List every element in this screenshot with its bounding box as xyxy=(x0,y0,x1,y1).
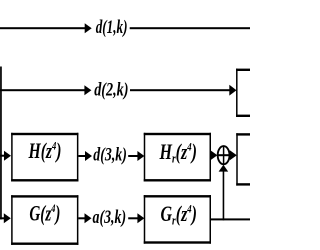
box A (top right, cropped at edge) xyxy=(236,69,250,117)
box B (middle right, cropped at edge) xyxy=(236,133,250,185)
wire d(1,k) right segment xyxy=(130,27,250,29)
svg-text:H(z4): H(z4) xyxy=(28,138,62,163)
wire G output with arrowhead xyxy=(78,213,91,223)
wire into Gr(z4) with arrowhead xyxy=(128,213,144,223)
wire d(2,k) left segment with arrowhead xyxy=(0,85,91,95)
wire feedback branch up into summer with arrowhead xyxy=(219,165,229,221)
wire d(2,k) right segment into delay box A with arrowhead xyxy=(130,85,237,96)
wire summer output into box B with arrowhead xyxy=(230,150,237,160)
wire input vertical trunk line xyxy=(0,67,2,220)
svg-text:G(z4): G(z4) xyxy=(29,201,60,226)
block Gr(z4) xyxy=(144,195,211,244)
svg-text:a(3,k): a(3,k) xyxy=(93,208,127,228)
wire into G(z4) with arrowhead xyxy=(0,213,11,223)
svg-text:d(3,k): d(3,k) xyxy=(93,146,127,166)
wire Gr output running right to edge xyxy=(211,218,250,220)
svg-text:Hr(z4): Hr(z4) xyxy=(159,139,197,166)
block H(z4) xyxy=(11,133,78,182)
wire d(1,k) left segment with arrowhead xyxy=(0,23,92,33)
svg-text:d(2,k): d(2,k) xyxy=(94,81,128,101)
wire into H(z4) with arrowhead xyxy=(0,151,11,161)
block Hr(z4) xyxy=(144,133,211,182)
svg-text:d(1,k): d(1,k) xyxy=(96,18,128,38)
wire into Hr(z4) with arrowhead xyxy=(128,151,144,161)
wire Hr output into summer with arrowhead xyxy=(210,150,217,160)
wire H output with arrowhead xyxy=(78,151,92,161)
block G(z4) xyxy=(11,195,78,245)
summer (circle-plus adder) xyxy=(217,146,230,165)
svg-text:Gr(z4): Gr(z4) xyxy=(161,201,198,228)
